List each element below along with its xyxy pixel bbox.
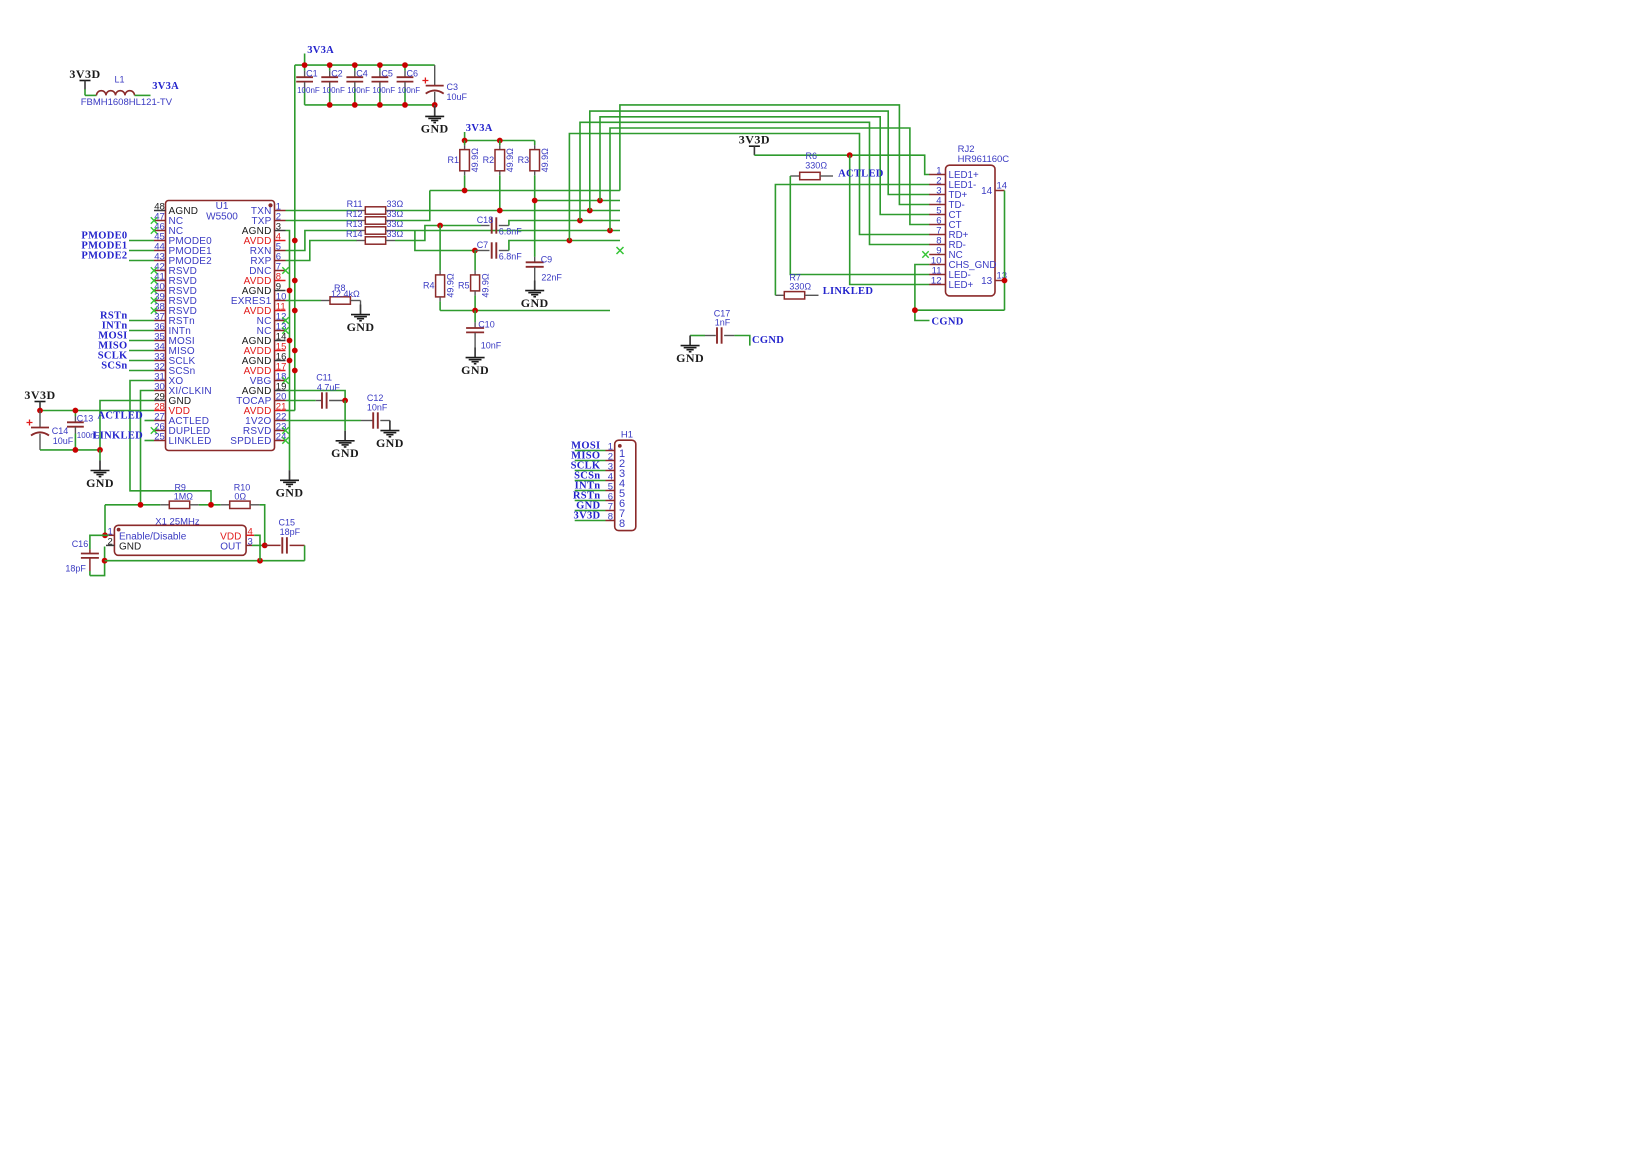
svg-text:C4: C4	[356, 68, 368, 78]
svg-text:R3: R3	[518, 155, 530, 165]
junction	[462, 138, 468, 144]
capacitor C12 10nF	[361, 420, 373, 422]
svg-text:H1: H1	[621, 430, 633, 441]
inductor L1 FBMH1608HL121-TV	[97, 91, 135, 96]
wire R8 to ground	[360, 301, 362, 305]
junction	[437, 223, 443, 229]
wire (bus jog U1 area to RJ45)	[610, 128, 930, 231]
svg-text:22nF: 22nF	[541, 273, 562, 283]
wire	[129, 240, 154, 242]
U1 pin 31 XO	[154, 380, 166, 382]
X1 pin 3 OUT	[246, 544, 252, 546]
U1 pin 41 RSVD	[154, 280, 166, 282]
no-connect X	[151, 217, 157, 223]
resistor R1 49.9Ω	[464, 141, 466, 146]
svg-text:GND: GND	[421, 122, 449, 136]
wire chassis bottom	[915, 309, 1005, 311]
no-connect X	[151, 427, 157, 433]
junction	[287, 338, 293, 344]
wire	[129, 360, 154, 362]
junction	[587, 208, 593, 214]
svg-text:C18: C18	[477, 215, 494, 225]
wire L1 to 3V3A	[135, 94, 151, 96]
U1 pin 48 AGND	[154, 210, 166, 212]
wire chassis pins 13/14	[1004, 191, 1006, 311]
U1 pin 37 RSTn	[154, 320, 166, 322]
svg-text:GND: GND	[276, 486, 304, 500]
RJ2 pin 3 TD+	[929, 194, 945, 196]
resistor R9 1MΩ	[160, 504, 169, 506]
junction	[352, 62, 358, 68]
junction	[73, 408, 79, 414]
capacitor C1 100nF	[304, 65, 306, 71]
svg-text:GND: GND	[347, 320, 375, 334]
svg-text:LINKLED: LINKLED	[823, 286, 874, 297]
U1 pin 32 SCSn	[154, 370, 166, 372]
svg-text:X1 25MHz: X1 25MHz	[155, 516, 200, 527]
resistor R11 33Ω	[357, 210, 366, 212]
junction	[847, 152, 853, 158]
wire C11 to ground	[344, 401, 346, 431]
svg-text:FBMH1608HL121-TV: FBMH1608HL121-TV	[81, 97, 173, 108]
wire R14 jog up to C18 row	[395, 226, 481, 241]
no-connect X	[151, 297, 157, 303]
svg-text:OUT: OUT	[220, 541, 241, 552]
U1 pin 47 NC	[154, 220, 166, 222]
svg-text:C11: C11	[316, 373, 332, 383]
wire (bus jog U1 area to RJ45)	[620, 105, 930, 205]
svg-text:CGND: CGND	[932, 316, 964, 327]
svg-text:R12: R12	[346, 209, 363, 219]
U1 pin 12 NC	[275, 320, 286, 322]
svg-text:C3: C3	[447, 82, 459, 92]
RJ2 pin 10 CHS_GND	[929, 264, 945, 266]
wire between R9 and R10	[199, 504, 221, 506]
U1 pin 27 ACTLED	[154, 420, 166, 422]
U1 pin 35 MOSI	[154, 340, 166, 342]
wire R13 jog down to C7 row	[415, 231, 475, 251]
junction	[377, 62, 383, 68]
no-connect X (RJ2 pin9)	[922, 251, 928, 257]
U1 pin 11 AVDD	[275, 310, 286, 312]
svg-text:SCSn: SCSn	[101, 361, 127, 372]
wire	[99, 450, 101, 461]
power flag 3V3D (top-left)	[80, 80, 91, 82]
junction	[73, 447, 79, 453]
wire VDD pin28 to 3V3D rail	[40, 410, 154, 412]
X1 pin 1 indicator dot	[117, 528, 121, 532]
U1 pin 1 TXN	[275, 210, 286, 212]
svg-text:12: 12	[931, 275, 942, 286]
junction	[257, 558, 263, 564]
svg-text:13: 13	[981, 276, 993, 287]
junction	[472, 248, 478, 254]
wire R9 row left	[105, 504, 160, 506]
wire ACTLED stub pin27	[145, 420, 155, 422]
svg-text:49.9Ω: 49.9Ω	[446, 273, 456, 298]
wire X1 pin1 stub	[105, 534, 109, 536]
RJ2 pin 14	[995, 190, 1005, 192]
H1 pin 4 (SCSn)	[575, 480, 606, 482]
wire RXP pin6 jog up to R14	[286, 241, 357, 261]
svg-text:330Ω: 330Ω	[805, 160, 827, 170]
ground GND (C9)	[534, 281, 536, 291]
wire bottom rail of capacitor bank	[305, 104, 435, 106]
svg-text:3V3D: 3V3D	[69, 67, 100, 81]
junction (XO / R9 / R10)	[208, 502, 214, 508]
power flag 3V3D (RJ45)	[749, 145, 760, 147]
U1 pin 5 RXN	[275, 250, 286, 252]
RJ2 pin 11 LED-	[929, 274, 945, 276]
H1 pin 3 (SCLK)	[575, 470, 606, 472]
capacitor C15 18pF	[265, 544, 281, 546]
wire C7 right jog up	[509, 241, 620, 251]
RJ2 pin 5 CT	[929, 214, 945, 216]
wire U1 pin 1 to R11	[286, 210, 357, 212]
svg-text:GND: GND	[676, 351, 704, 365]
oscillator X1 25MHz body	[114, 525, 246, 555]
wire	[129, 370, 154, 372]
wire R1-bottom row	[430, 190, 620, 192]
wire R10 right to OUT node	[260, 505, 265, 546]
wire (bus jog U1 area to RJ45)	[590, 111, 930, 210]
svg-text:CGND: CGND	[752, 335, 784, 346]
svg-text:C10: C10	[478, 319, 495, 329]
ground GND (C11)	[344, 431, 346, 441]
wire X1 pin3 OUT to C15	[252, 544, 265, 546]
connector RJ2 HR961160C body	[946, 165, 996, 296]
wire C17 right to CGND	[734, 336, 749, 346]
X1 pin 4 VDD	[246, 534, 254, 536]
U1 pin 22 1V2O	[275, 420, 286, 422]
svg-text:3V3D: 3V3D	[574, 511, 601, 522]
U1 pin 19 AGND	[275, 390, 286, 392]
junction	[292, 368, 298, 374]
svg-text:33Ω: 33Ω	[387, 199, 404, 209]
wire XO pin31 to crystal	[130, 381, 211, 505]
wire	[129, 340, 154, 342]
no-connect X	[282, 327, 288, 333]
resistor R12 33Ω	[357, 220, 366, 222]
svg-text:R11: R11	[347, 199, 363, 209]
junction	[37, 408, 43, 414]
svg-text:49.9Ω: 49.9Ω	[470, 148, 480, 173]
wire pull-up rail	[465, 140, 535, 142]
wire TOCAP pin20 to C11	[286, 400, 316, 402]
capacitor C10 10nF	[474, 311, 476, 323]
svg-text:18pF: 18pF	[65, 563, 86, 573]
svg-text:GND: GND	[376, 436, 404, 450]
resistor R14 33Ω	[357, 240, 366, 242]
svg-text:C12: C12	[367, 393, 384, 403]
H1 pin 1 indicator dot	[618, 444, 622, 448]
wire to C16 top	[90, 535, 105, 549]
no-connect X	[282, 377, 288, 383]
U1 pin 23 RSVD	[275, 430, 286, 432]
RJ2 pin 4 TD-	[929, 204, 945, 206]
X1 pin 2 GND	[106, 544, 114, 546]
U1 pin 42 RSVD	[154, 270, 166, 272]
RJ2 pin 13	[995, 280, 1005, 282]
svg-text:49.9Ω: 49.9Ω	[505, 148, 515, 173]
ground GND (cap bank)	[434, 105, 436, 106]
svg-text:U1: U1	[216, 201, 229, 212]
svg-text:8: 8	[619, 518, 625, 530]
U1 pin 7 DNC	[275, 270, 286, 272]
svg-text:C1: C1	[306, 68, 318, 78]
wire RXN pin5 jog up to R13	[286, 231, 357, 251]
svg-text:GND: GND	[461, 363, 489, 377]
junction	[462, 188, 468, 194]
capacitor C4 100nF	[354, 65, 356, 71]
wire TXP row jog up to R1 row	[395, 191, 430, 221]
junction	[327, 62, 333, 68]
junction	[402, 102, 408, 108]
wire R3 row	[535, 200, 620, 202]
svg-text:ACTLED: ACTLED	[97, 411, 143, 422]
no-connect X	[151, 277, 157, 283]
svg-text:8: 8	[608, 511, 613, 522]
wire R7 left up to RJ2 pin2	[775, 185, 929, 296]
junction	[607, 228, 613, 234]
svg-text:C2: C2	[331, 68, 343, 78]
svg-text:GND: GND	[521, 296, 549, 310]
wire R9 row down-left to X1 pin1	[104, 505, 106, 536]
svg-text:R13: R13	[346, 219, 363, 229]
junction	[102, 532, 108, 538]
junction	[292, 348, 298, 354]
capacitor C2 100nF	[329, 65, 331, 71]
wire U1 pin 2 to R12	[286, 220, 357, 222]
IC U1 W5500 body	[166, 201, 275, 451]
wire (bus jog U1 area to RJ45)	[569, 134, 929, 241]
svg-text:C5: C5	[381, 68, 393, 78]
svg-text:1MΩ: 1MΩ	[174, 492, 194, 502]
svg-text:2: 2	[108, 536, 113, 547]
H1 pin 2 (MISO)	[575, 460, 606, 462]
U1 pin 28 VDD	[154, 410, 166, 412]
junction	[292, 238, 298, 244]
U1 pin 43 PMODE2	[154, 260, 166, 262]
svg-text:C13: C13	[77, 413, 94, 423]
svg-text:10nF: 10nF	[481, 340, 502, 350]
wire R6 left to RJ2 pin11	[790, 176, 929, 275]
ground GND (R8)	[360, 305, 362, 315]
RJ2 pin 9 NC	[929, 254, 945, 256]
junction	[567, 238, 573, 244]
U1 pin 46 NC	[154, 230, 166, 232]
junction	[302, 62, 308, 68]
U1 pin 1 indicator dot	[268, 203, 272, 207]
U1 pin 18 VBG	[275, 380, 286, 382]
svg-text:1nF: 1nF	[715, 317, 731, 327]
junction	[402, 62, 408, 68]
svg-text:R2: R2	[483, 155, 495, 165]
resistor R8 12.4kΩ	[321, 300, 330, 302]
capacitor C17 1nF	[690, 335, 705, 337]
wire 3V3A stub	[304, 54, 306, 66]
U1 pin 15 AVDD	[275, 350, 286, 352]
svg-text:R4: R4	[423, 280, 435, 290]
capacitor C6 100nF	[404, 65, 406, 71]
connector H1 body	[615, 440, 636, 530]
svg-text:25: 25	[154, 431, 165, 442]
wire CHS_GND pin10 down	[915, 265, 930, 321]
wire	[129, 320, 154, 322]
U1 pin 34 MISO	[154, 350, 166, 352]
wire 3V3D to RJ2 pin1	[754, 155, 929, 174]
junction	[97, 447, 103, 453]
wire top rail of capacitor bank	[295, 64, 435, 66]
junction	[342, 398, 348, 404]
RJ2 pin 6 CT	[929, 224, 945, 226]
U1 pin 9 AGND	[275, 290, 286, 292]
svg-text:R5: R5	[458, 280, 470, 290]
wire	[129, 260, 154, 262]
svg-text:PMODE2: PMODE2	[81, 251, 127, 262]
junction	[262, 543, 268, 549]
capacitor C11 4.7uF	[316, 400, 322, 402]
svg-text:GND: GND	[86, 476, 114, 490]
RJ2 pin 12 LED+	[929, 284, 945, 286]
U1 pin 33 SCLK	[154, 360, 166, 362]
junction	[472, 308, 478, 314]
wire C18 right jog up	[509, 221, 620, 226]
H1 pin 5 (INTn)	[575, 490, 606, 492]
wire ground rail under C13/C14	[40, 449, 100, 451]
wire 3V3A bus down left side (AVDD bus)	[294, 65, 296, 410]
svg-text:330Ω: 330Ω	[789, 281, 811, 291]
svg-text:3V3A: 3V3A	[307, 45, 334, 56]
ground GND (C10)	[474, 348, 476, 358]
svg-text:100nF: 100nF	[398, 86, 421, 95]
junction (XI / R9 left)	[138, 502, 144, 508]
H1 pin 1 (MOSI)	[575, 450, 606, 452]
capacitor C18 6.8nF	[481, 225, 490, 227]
wire 3V3D to L1	[84, 89, 86, 95]
wire 1V2O pin22 to C12	[286, 420, 362, 422]
junction	[532, 198, 538, 204]
U1 pin 36 INTn	[154, 330, 166, 332]
svg-text:C6: C6	[407, 68, 419, 78]
no-connect X	[282, 427, 288, 433]
wire XI/CLKIN pin30 to crystal	[141, 391, 155, 505]
junction	[287, 288, 293, 294]
no-connect X	[282, 317, 288, 323]
U1 pin 3 AGND	[275, 230, 286, 232]
capacitor C5 100nF	[379, 65, 381, 71]
svg-text:6.8nF: 6.8nF	[499, 251, 523, 261]
U1 pin 2 TXP	[275, 220, 286, 222]
wire	[129, 330, 154, 332]
capacitor C16 18pF	[89, 549, 91, 553]
ground GND (left rail)	[99, 460, 101, 470]
svg-text:49.9Ω: 49.9Ω	[481, 273, 491, 298]
wire C15 right down to ground row	[304, 545, 306, 560]
wire AVDD bus corner into pin21	[286, 410, 295, 412]
svg-text:18pF: 18pF	[280, 527, 301, 537]
wire (bus jog U1 area to RJ45)	[580, 122, 930, 244]
U1 pin 39 RSVD	[154, 300, 166, 302]
H1 pin 7 (GND)	[575, 510, 606, 512]
U1 pin 26 DUPLED	[154, 430, 166, 432]
junction	[1002, 278, 1008, 284]
svg-text:3V3D: 3V3D	[24, 388, 55, 402]
svg-text:10uF: 10uF	[447, 92, 468, 102]
junction	[102, 558, 108, 564]
svg-text:C7: C7	[477, 240, 489, 250]
H1 pin 6 (RSTn)	[575, 500, 606, 502]
no-connect X (floating)	[617, 247, 624, 254]
ground GND (C12)	[389, 421, 391, 431]
U1 pin 21 AVDD	[275, 410, 286, 412]
wire EXRES1 pin10 to R8	[286, 300, 322, 302]
junction	[292, 308, 298, 314]
RJ2 pin 8 RD-	[929, 244, 945, 246]
svg-text:C9: C9	[541, 255, 553, 265]
svg-text:W5500: W5500	[206, 212, 238, 223]
svg-text:L1: L1	[114, 75, 124, 85]
capacitor C3 10uF (polarized)	[434, 65, 436, 85]
svg-text:12.4kΩ: 12.4kΩ	[331, 289, 360, 299]
wire crystal ground row	[105, 560, 305, 562]
U1 pin 8 AVDD	[275, 280, 286, 282]
resistor R3 49.9Ω	[534, 141, 536, 146]
resistor R7 330Ω	[775, 294, 784, 296]
junction	[432, 102, 438, 108]
RJ2 pin 7 RD+	[929, 234, 945, 236]
wire LINKLED stub pin25	[145, 440, 155, 442]
svg-text:LED+: LED+	[949, 280, 974, 291]
U1 pin 40 RSVD	[154, 290, 166, 292]
wire	[129, 350, 154, 352]
RJ2 pin 1 LED1+	[929, 174, 945, 176]
U1 pin 38 RSVD	[154, 310, 166, 312]
svg-text:R14: R14	[346, 229, 363, 239]
wire X1 pin4 VDD to ground row	[254, 535, 260, 560]
U1 pin 29 GND	[154, 400, 166, 402]
no-connect X	[151, 227, 157, 233]
ground GND (below U1)	[289, 470, 291, 480]
RJ2 pin 2 LED1-	[929, 184, 945, 186]
U1 pin 25 LINKLED	[154, 440, 166, 442]
svg-text:GND: GND	[331, 446, 359, 460]
U1 pin 45 PMODE0	[154, 240, 166, 242]
wire	[129, 250, 154, 252]
svg-text:3V3A: 3V3A	[152, 81, 179, 92]
svg-text:C14: C14	[52, 426, 69, 436]
X1 pin 1 Enable/Disable	[109, 534, 115, 536]
svg-text:3V3D: 3V3D	[739, 133, 770, 147]
svg-text:14: 14	[997, 181, 1008, 192]
no-connect X	[282, 437, 288, 443]
junction	[597, 198, 603, 204]
junction	[327, 102, 333, 108]
junction	[287, 358, 293, 364]
wire AGND pin19 to C11 right	[286, 391, 346, 401]
svg-text:100nF: 100nF	[322, 86, 345, 95]
wire (bus jog U1 area to RJ45)	[600, 117, 930, 215]
U1 pin 4 AVDD	[275, 240, 286, 242]
no-connect X	[151, 287, 157, 293]
U1 pin 44 PMODE1	[154, 250, 166, 252]
wire C16 bottom to GND net	[90, 547, 105, 576]
svg-text:HR961160C: HR961160C	[958, 154, 1010, 165]
H1 pin 8 (3V3D)	[575, 520, 606, 522]
wire RX termination bottom row	[440, 310, 610, 312]
wire AGND bus (pins 3,9,14,16)	[286, 231, 290, 471]
capacitor C14 10uF (polarized)	[39, 411, 41, 428]
